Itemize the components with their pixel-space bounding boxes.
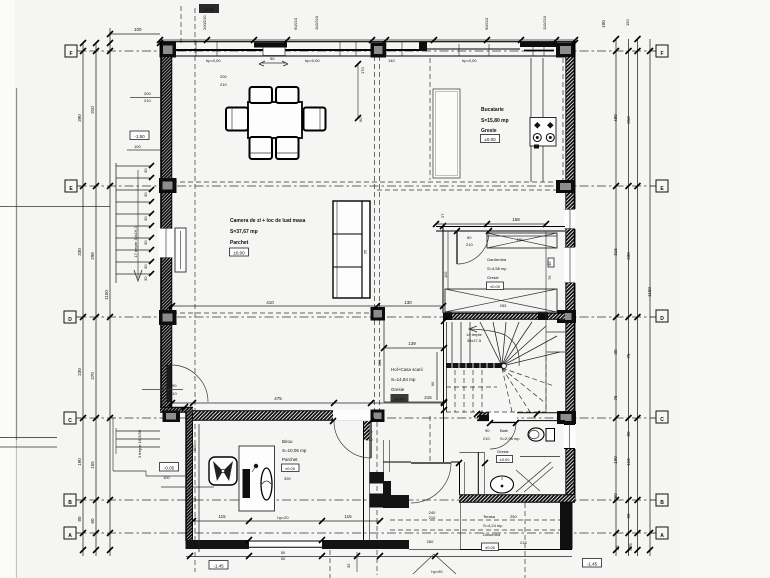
bathroom top wall (477, 413, 489, 421)
left wall hatch (161, 57, 173, 407)
column left D (159, 310, 177, 325)
exterior stair down arrow (137, 170, 139, 278)
svg-text:±0.00: ±0.00 (285, 466, 296, 471)
wardrobe band 1 (487, 233, 557, 248)
svg-text:30: 30 (143, 264, 148, 269)
marker F right (656, 45, 668, 57)
column right D (557, 310, 576, 323)
kitchen counter lines (530, 58, 532, 182)
page edge line (16, 88, 18, 440)
vertical dim hol (383, 320, 385, 402)
svg-text:1150: 1150 (104, 290, 109, 300)
lower left wall (186, 412, 194, 541)
terasa label (483, 514, 527, 545)
svg-text:C: C (68, 418, 72, 424)
marker E right (656, 180, 668, 192)
svg-text:30: 30 (143, 240, 148, 245)
garderoba label (487, 257, 507, 280)
svg-text:D: D (68, 317, 72, 323)
svg-text:Garderoba: Garderoba (487, 257, 507, 262)
stove (530, 118, 556, 149)
window jamb ticks (196, 42, 544, 56)
top wall block 2 (419, 42, 427, 51)
marker B left (64, 494, 76, 506)
bathroom inner wall (477, 452, 479, 494)
marker B right (656, 494, 668, 506)
garderoba dim line 158 (436, 223, 546, 225)
svg-text:Gresie: Gresie (391, 387, 405, 392)
bathroom door leaf (490, 422, 516, 424)
svg-text:Parchet: Parchet (230, 240, 249, 246)
terasa dashed lines (390, 519, 560, 521)
svg-text:hp=90: hp=90 (431, 569, 443, 574)
svg-text:Baie: Baie (500, 428, 509, 433)
svg-text:Gresie: Gresie (481, 128, 497, 134)
living room label (230, 218, 306, 246)
hol door leaf (411, 462, 451, 464)
marker D left (64, 311, 76, 323)
fan symbol (209, 457, 237, 485)
svg-text:100: 100 (134, 27, 142, 32)
hol bottom wall + door (383, 461, 411, 463)
svg-text:270: 270 (90, 372, 95, 380)
svg-text:-1.45: -1.45 (587, 562, 598, 567)
chair bottom-right (276, 137, 299, 159)
svg-text:525: 525 (628, 543, 633, 551)
terasa bottom lines (460, 549, 572, 551)
column right E (556, 180, 576, 193)
svg-text:130: 130 (404, 300, 412, 305)
sofa (333, 201, 370, 298)
svg-text:hp=20: hp=20 (277, 515, 289, 520)
garderoba door arc (457, 232, 489, 264)
svg-text:S=14,84 mp: S=14,84 mp (391, 377, 416, 382)
porch outline bottom-left (112, 417, 114, 471)
marker E left (65, 180, 77, 192)
svg-text:hp=0,00: hp=0,00 (462, 58, 477, 63)
axis E (72, 185, 657, 187)
svg-text:F: F (69, 51, 72, 57)
svg-text:315: 315 (613, 248, 618, 256)
svg-text:-1.50: -1.50 (134, 134, 145, 139)
svg-text:210: 210 (466, 242, 473, 247)
chair bottom-left (250, 137, 273, 159)
column birou C axis (371, 410, 385, 423)
svg-text:S=2,98 mp: S=2,98 mp (500, 436, 520, 441)
svg-text:-1.45: -1.45 (213, 564, 224, 569)
chair top-right (276, 87, 299, 103)
radiator niche living room (175, 228, 186, 272)
svg-text:30x17,5: 30x17,5 (467, 338, 482, 343)
column right C (557, 411, 576, 424)
terasa right wall block (560, 503, 573, 550)
marker A left (64, 527, 76, 539)
elevation -1.45 bottom-left (209, 561, 228, 570)
svg-text:hp=0,00: hp=0,00 (305, 58, 320, 63)
svg-text:90: 90 (192, 497, 197, 502)
kitchen label (481, 107, 509, 134)
kitchen wall face dashed x563 (562, 58, 564, 182)
svg-text:110: 110 (626, 458, 631, 466)
marker F left (65, 45, 77, 57)
svg-text:75: 75 (626, 353, 631, 359)
svg-text:110/210: 110/210 (542, 15, 547, 30)
dim line 475 (170, 402, 444, 404)
svg-text:190: 190 (77, 458, 82, 466)
top window/door size labels rotated (202, 15, 630, 30)
svg-text:-0.05: -0.05 (164, 466, 175, 471)
top wall glass line west (176, 49, 420, 51)
svg-text:Camera de zi + loc de luat mas: Camera de zi + loc de luat masa (230, 218, 306, 224)
chair top-left (250, 87, 273, 103)
right chain labels (601, 20, 652, 551)
main stair dashed continuation (446, 356, 554, 412)
top wall outer edge (159, 41, 576, 43)
svg-text:1150: 1150 (647, 287, 652, 297)
svg-text:115: 115 (218, 514, 226, 519)
birou label (282, 439, 307, 462)
porch steps 3 treads (116, 430, 160, 432)
corner column top-left (160, 42, 177, 58)
svg-text:90: 90 (626, 513, 631, 519)
svg-text:17 trepte 30x16,2: 17 trepte 30x16,2 (133, 226, 138, 258)
wall between garderoba and stair (444, 313, 565, 320)
svg-text:90: 90 (368, 429, 373, 434)
top dark section label (199, 4, 219, 13)
svg-text:±0.00: ±0.00 (485, 545, 496, 550)
left dimension chain line 3 (109, 28, 111, 556)
desk lamp (254, 464, 258, 468)
chair left (226, 108, 248, 131)
svg-text:210: 210 (429, 515, 436, 520)
svg-text:S=4,58 mp: S=4,58 mp (487, 266, 507, 271)
200/210 near left wall (130, 74, 227, 103)
corner column top-right (556, 43, 576, 58)
axis A (72, 532, 657, 534)
marker A right (656, 527, 668, 539)
svg-text:S=15,80 mp: S=15,80 mp (481, 118, 509, 124)
marker stubs (76, 51, 656, 533)
dim line 215 (384, 401, 444, 403)
top dim ticks (107, 31, 578, 43)
svg-text:30: 30 (143, 276, 148, 281)
living bottom-left door arc (171, 365, 208, 402)
vertical dim line left of birou (198, 424, 200, 552)
svg-text:Dusumea: Dusumea (483, 532, 501, 537)
bathroom shelf line (520, 456, 560, 458)
dashed room split line at E (172, 181, 565, 183)
svg-text:298: 298 (90, 252, 95, 260)
svg-text:90/210: 90/210 (293, 17, 298, 30)
svg-text:250: 250 (510, 514, 517, 519)
top wall glass line east (524, 50, 554, 52)
elevation label -1.50 (130, 131, 149, 140)
svg-text:75: 75 (547, 275, 552, 280)
bathroom bottom wall (459, 495, 575, 503)
svg-text:50: 50 (281, 556, 286, 561)
svg-text:100: 100 (601, 20, 606, 28)
stair walk line with arrow (470, 329, 519, 366)
hp labels below top wall (206, 58, 477, 63)
svg-text:B: B (68, 500, 72, 506)
svg-text:253: 253 (500, 303, 507, 308)
neighbour drawing fragment left edge (0, 437, 57, 439)
svg-text:100: 100 (163, 475, 170, 480)
svg-text:A: A (660, 533, 664, 539)
top wall glass line mid (427, 48, 520, 50)
svg-text:330: 330 (377, 359, 382, 366)
svg-text:155: 155 (90, 461, 95, 469)
svg-text:75: 75 (613, 395, 618, 401)
svg-text:±0.00: ±0.00 (500, 457, 511, 462)
garderoba top wall (436, 226, 565, 228)
svg-text:35: 35 (363, 249, 368, 254)
duct blocks (370, 472, 385, 484)
hol label (391, 367, 423, 392)
svg-text:90: 90 (613, 349, 618, 355)
svg-text:-2.65: -2.65 (204, 7, 215, 12)
svg-text:±0.00: ±0.00 (484, 137, 496, 142)
shower area diagonals (516, 462, 553, 492)
svg-text:158: 158 (512, 217, 520, 222)
marker D right (656, 310, 668, 322)
desk birou (239, 446, 275, 511)
svg-text:230: 230 (77, 368, 82, 376)
svg-text:90: 90 (172, 383, 177, 388)
svg-text:200: 200 (144, 91, 151, 96)
bottom wall window (249, 540, 322, 550)
main stair fan treads (480, 322, 560, 366)
svg-text:±0.00: ±0.00 (233, 251, 245, 256)
svg-text:90/210: 90/210 (484, 17, 489, 30)
svg-text:410: 410 (266, 300, 274, 305)
svg-text:Bucatarie: Bucatarie (481, 107, 504, 113)
corridor wall (383, 440, 385, 472)
svg-text:330: 330 (77, 248, 82, 256)
living bottom-left door leaf (167, 365, 172, 402)
svg-text:230: 230 (626, 252, 631, 260)
left wall step at C (160, 407, 193, 413)
svg-text:475: 475 (274, 396, 282, 401)
svg-text:50: 50 (270, 56, 275, 61)
svg-text:Hol+Casa scarii: Hol+Casa scarii (391, 367, 423, 372)
left chain ticks (80, 40, 113, 553)
column left E (159, 178, 177, 193)
left wall window (159, 228, 174, 258)
svg-text:27: 27 (440, 213, 445, 218)
svg-text:150: 150 (625, 19, 630, 26)
svg-text:260: 260 (427, 539, 434, 544)
svg-text:A: A (68, 533, 72, 539)
svg-text:260: 260 (613, 493, 618, 501)
bottom wall birou right part (322, 540, 409, 549)
column left C (163, 411, 181, 423)
svg-text:Gresie: Gresie (497, 449, 510, 454)
left chain labels (77, 106, 109, 524)
exterior stair 30 labels (143, 168, 148, 281)
svg-text:60: 60 (467, 235, 472, 240)
birou right wall (363, 421, 365, 540)
chair right (304, 108, 326, 131)
svg-text:35: 35 (346, 563, 351, 568)
right wall window 2 (564, 247, 576, 283)
elevation -0.05 (160, 463, 179, 472)
top wall inner edge (172, 55, 566, 57)
top dimension line (110, 33, 160, 35)
axis C (72, 417, 657, 419)
svg-text:D: D (660, 316, 664, 322)
svg-text:213: 213 (520, 540, 527, 545)
vertical axis x430 kitchen (429, 58, 431, 180)
svg-text:S=37,67 mp: S=37,67 mp (230, 229, 258, 235)
svg-text:390: 390 (284, 476, 291, 481)
svg-text:C: C (660, 417, 664, 423)
svg-text:100: 100 (134, 144, 141, 149)
living dim line 410/130 (172, 305, 443, 307)
right chain ticks (613, 36, 653, 553)
svg-text:90: 90 (358, 117, 363, 122)
svg-text:139: 139 (408, 341, 416, 346)
shaft box right wall (548, 258, 554, 267)
left dimension chain line 2 (95, 43, 97, 556)
dining table (248, 102, 302, 138)
left dimension chain line 1 (82, 43, 84, 556)
svg-text:210: 210 (144, 98, 151, 103)
svg-text:30: 30 (615, 545, 620, 551)
bottom wall birou left part (186, 540, 250, 549)
axis D (72, 316, 657, 318)
top wall lintel east (520, 42, 557, 47)
right wall hatch (566, 57, 575, 495)
svg-text:200/210: 200/210 (202, 15, 207, 30)
bathroom door arc (490, 423, 516, 449)
axis F (72, 50, 657, 52)
svg-text:Terasa: Terasa (483, 514, 496, 519)
garderoba door leaf (456, 232, 458, 265)
kitchen-living vertical dim (357, 64, 359, 118)
svg-text:14 trepte: 14 trepte (466, 332, 483, 337)
svg-text:150: 150 (517, 237, 524, 242)
dashed room split line at D (172, 312, 371, 314)
svg-text:80: 80 (626, 431, 631, 437)
svg-text:50: 50 (281, 550, 286, 555)
svg-text:190: 190 (613, 456, 618, 464)
desk monitor (243, 469, 251, 498)
svg-text:140: 140 (388, 58, 395, 63)
svg-text:115: 115 (344, 514, 352, 519)
column top axis2 (371, 43, 387, 58)
svg-text:215: 215 (192, 444, 197, 451)
exterior stair left treads (116, 163, 151, 283)
misc corner ticks (157, 40, 578, 543)
dashed axis continuation bottom x330 (329, 550, 331, 578)
leader line -0.05 (161, 486, 214, 488)
svg-text:40: 40 (547, 261, 552, 266)
corridor L wall black (383, 481, 391, 508)
exterior stair tick column (149, 163, 154, 276)
dim line 139 (384, 347, 444, 349)
garderoba left wall (442, 226, 444, 313)
svg-text:80: 80 (77, 516, 82, 522)
wardrobe band 2 (445, 289, 557, 312)
terasa left edge (460, 503, 462, 550)
svg-text:210: 210 (483, 436, 490, 441)
svg-text:210: 210 (170, 391, 177, 396)
svg-text:60: 60 (90, 518, 95, 524)
stair center knob (502, 364, 507, 369)
office chair (261, 468, 272, 500)
svg-text:30: 30 (143, 192, 148, 197)
svg-text:110: 110 (443, 271, 448, 278)
stair left wall line (443, 319, 445, 462)
svg-text:215: 215 (424, 395, 432, 400)
right dimension chain lines (615, 39, 617, 556)
baie label (483, 428, 520, 454)
svg-text:390: 390 (77, 114, 82, 122)
svg-text:B: B (660, 500, 664, 506)
vertical axis x195 (194, 8, 196, 572)
svg-text:110/210: 110/210 (314, 15, 319, 30)
svg-text:30: 30 (143, 168, 148, 173)
svg-text:480: 480 (613, 114, 618, 122)
svg-text:90: 90 (430, 381, 435, 386)
svg-text:Parchet: Parchet (282, 457, 298, 462)
svg-text:210: 210 (366, 437, 373, 442)
marker C right (656, 411, 668, 423)
svg-text:±0.00: ±0.00 (395, 397, 406, 402)
bathroom left wall (459, 462, 461, 494)
svg-text:210: 210 (220, 82, 227, 87)
toilet (528, 428, 555, 441)
svg-text:±0.00: ±0.00 (490, 284, 501, 289)
bathroom window right wall (564, 424, 576, 449)
svg-text:hp=0,00: hp=0,00 (206, 58, 221, 63)
vertical axis pair x377 (374, 56, 376, 412)
svg-text:310: 310 (90, 106, 95, 114)
svg-text:200: 200 (220, 74, 227, 79)
dashed stub above label (180, 6, 182, 43)
svg-text:S=10,06 mp: S=10,06 mp (282, 448, 307, 453)
stair landing lines (546, 331, 565, 333)
right wall window 1 (564, 209, 576, 229)
axis B (72, 499, 657, 501)
birou bottom dim 115/115 (193, 520, 380, 522)
kitchen island (433, 89, 460, 178)
svg-text:Gresie: Gresie (487, 275, 500, 280)
sink (491, 476, 514, 493)
terasa double door swing (413, 554, 434, 574)
birou door leaf (370, 421, 372, 458)
main stair straight treads (447, 322, 471, 412)
birou door arc (334, 421, 371, 458)
svg-text:F: F (660, 51, 663, 57)
marker C left (64, 412, 76, 424)
left stair top dim (127, 149, 160, 151)
svg-text:170: 170 (360, 67, 365, 74)
hol door arc (411, 463, 451, 503)
svg-text:90: 90 (485, 428, 490, 433)
svg-text:310: 310 (626, 116, 631, 124)
top wall lintel block (254, 42, 287, 47)
svg-text:30: 30 (143, 216, 148, 221)
elevation -1.45 bottom-right (583, 559, 602, 568)
bottom dims (281, 510, 444, 574)
window 50 box (263, 46, 285, 56)
neighbour drawing line top-left (0, 206, 110, 208)
svg-text:3 trepte 16,5/30: 3 trepte 16,5/30 (137, 429, 142, 458)
dashed axis continuation bottom x525 (524, 503, 526, 578)
svg-text:S=4,24 mp: S=4,24 mp (483, 523, 503, 528)
